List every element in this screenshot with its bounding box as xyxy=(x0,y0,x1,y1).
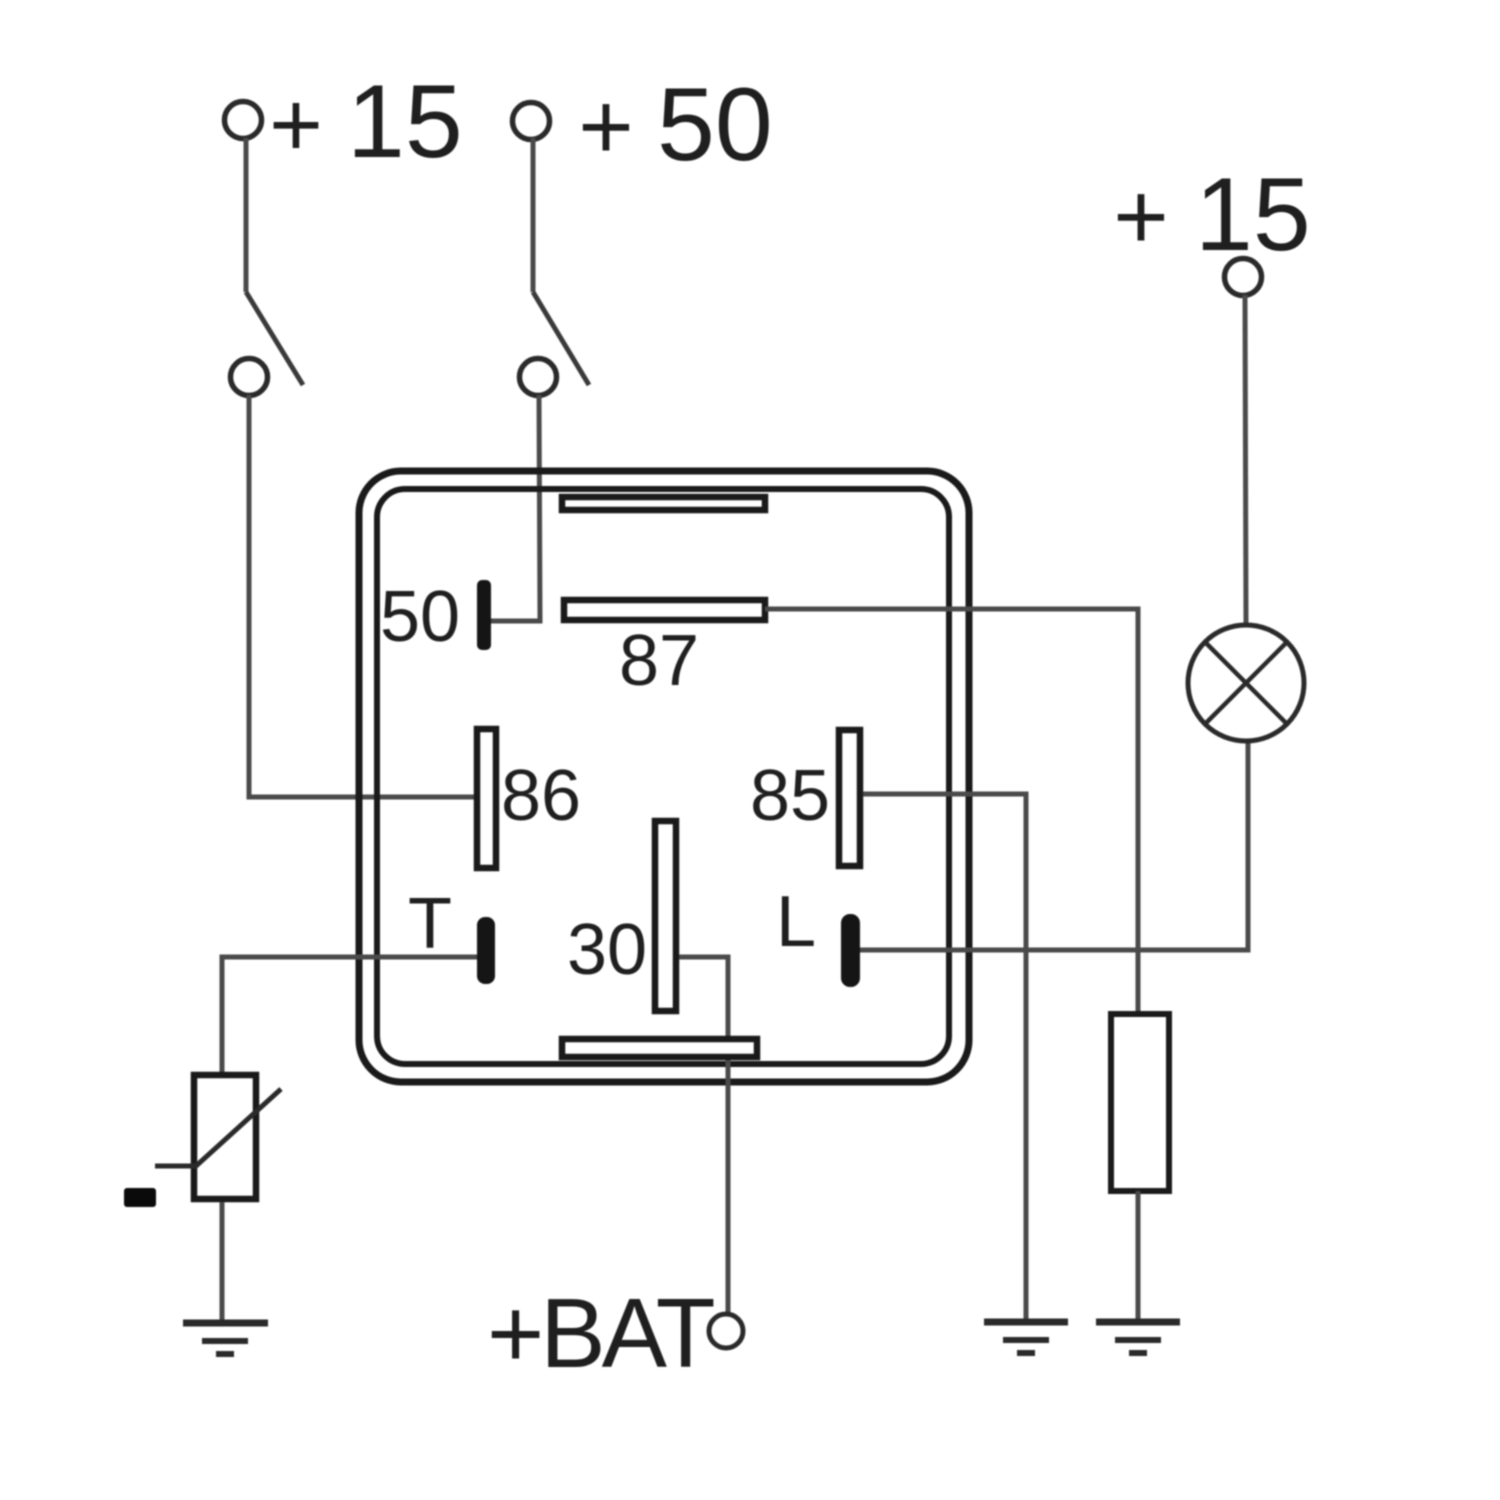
wire from +15 right terminal to lamp xyxy=(1245,295,1246,623)
pin T bar xyxy=(477,917,495,984)
ground (pin 85) xyxy=(984,1322,1068,1353)
svg-text:L: L xyxy=(776,882,816,962)
wire pin L to lamp xyxy=(860,743,1248,950)
wire from S2 to pin 50 xyxy=(491,395,540,621)
terminal +15 right xyxy=(1225,259,1262,296)
wire resistor R2 to ground xyxy=(1136,1191,1141,1321)
svg-text:87: 87 xyxy=(619,621,699,701)
relay top slot xyxy=(562,497,765,510)
svg-text:85: 85 xyxy=(750,756,830,836)
svg-text:+BAT: +BAT xyxy=(487,1278,714,1388)
switch S2 lower terminal xyxy=(520,359,557,396)
wire pin T to sensor xyxy=(222,957,477,1072)
wire pin 30 to +BAT xyxy=(679,957,728,1314)
resistor R2 xyxy=(1111,1014,1169,1191)
sensor R1 diagonal arrow xyxy=(155,1089,281,1166)
svg-text:50: 50 xyxy=(657,67,773,183)
pin 86 slot xyxy=(477,729,496,868)
svg-text:15: 15 xyxy=(1195,157,1311,273)
switch S1 blade xyxy=(246,292,303,385)
relay outline inner xyxy=(377,489,949,1064)
svg-text:86: 86 xyxy=(501,756,581,836)
switch S2 blade xyxy=(533,292,589,385)
wire from S1 to pin 86 xyxy=(249,395,474,797)
pin 30 slot xyxy=(655,821,676,1011)
pin 85 slot xyxy=(839,730,860,866)
svg-text:15: 15 xyxy=(347,64,463,180)
minus mark xyxy=(124,1188,156,1207)
pin L bar xyxy=(841,914,860,987)
pin 50 bar xyxy=(477,580,491,650)
svg-text:T: T xyxy=(408,884,452,964)
relay bottom slot xyxy=(562,1039,757,1057)
svg-text:+: + xyxy=(269,74,323,176)
ground (resistor R2) xyxy=(1096,1322,1180,1353)
sensor R1 (variable resistor) body xyxy=(194,1075,256,1199)
pin 87 slot xyxy=(564,600,765,620)
ground (sensor) xyxy=(183,1323,268,1354)
svg-text:+: + xyxy=(578,74,633,180)
svg-text:50: 50 xyxy=(380,577,460,657)
svg-text:+: + xyxy=(1113,164,1168,270)
wire from +15 terminal to switch S1 xyxy=(244,138,249,292)
wire pin 87 to resistor R2 xyxy=(765,609,1138,1014)
wire from +50 terminal to switch S2 xyxy=(531,138,536,292)
wire sensor R1 to ground xyxy=(220,1202,225,1321)
terminal +50 xyxy=(513,103,550,140)
relay outline outer xyxy=(359,471,969,1082)
terminal +15 left xyxy=(225,102,262,139)
lamp xyxy=(1188,625,1304,741)
svg-text:30: 30 xyxy=(567,910,647,990)
terminal +BAT xyxy=(709,1314,743,1348)
wire pin 85 to ground xyxy=(863,794,1026,1321)
switch S1 lower terminal xyxy=(231,359,268,396)
